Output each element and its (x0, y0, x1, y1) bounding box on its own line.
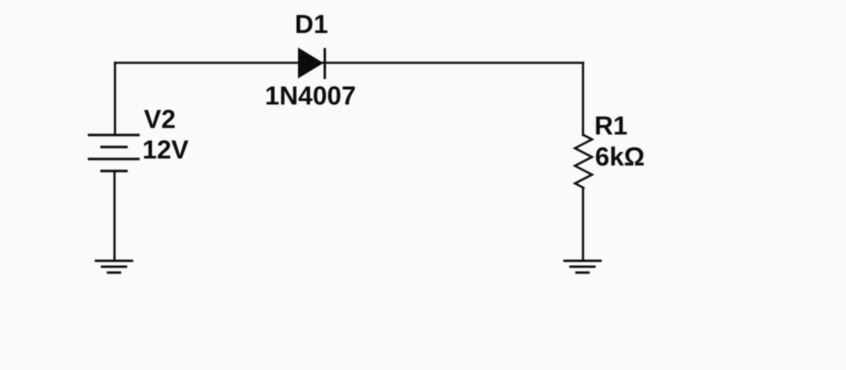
ground (right) (565, 261, 601, 273)
svg-text:12V: 12V (142, 135, 189, 165)
wire: right vertical from top corner to resistor (582, 63, 584, 135)
battery V2 (89, 135, 139, 171)
wire: battery bottom to left ground (113, 171, 115, 261)
ground (left) (96, 261, 132, 273)
wire: resistor bottom to right ground (582, 188, 584, 261)
resistor R1 (575, 135, 592, 188)
svg-text:6kΩ: 6kΩ (595, 142, 645, 172)
svg-text:R1: R1 (594, 110, 627, 140)
svg-text:D1: D1 (295, 9, 328, 39)
wire: left vertical from top corner to battery (114, 63, 116, 135)
svg-text:V2: V2 (144, 104, 176, 134)
svg-text:1N4007: 1N4007 (265, 81, 356, 111)
diode D1 (298, 48, 325, 80)
wire: top horizontal net from V2+ to R1 top (115, 62, 583, 64)
